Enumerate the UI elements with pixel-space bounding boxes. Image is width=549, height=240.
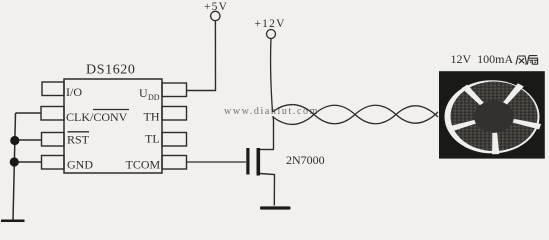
fan rotor blades [448,82,541,155]
svg-text:CLK/CONV: CLK/CONV [66,110,128,124]
svg-text:I/O: I/O [66,85,82,99]
pin box TCOM (right row 4) [162,156,187,170]
wire left bus vertical [13,113,16,220]
pin box UDD (right row 1) [162,83,187,97]
wire CLK/CONV to left bus [16,112,42,114]
transistor Q1 2N7000 [246,148,274,206]
svg-text:2N7000: 2N7000 [286,153,325,167]
power terminal +5V [204,1,228,21]
node junction GND/bus [10,157,19,166]
wire UDD to +5V [187,21,216,91]
source lead [260,174,275,206]
wire TCOM to gate [187,161,247,163]
IC U1 DS1620 body [64,79,162,173]
ground (source) [262,206,290,209]
svg-text:TCOM: TCOM [126,158,161,172]
pin box CLK/CONV (left row 2) [41,107,64,121]
twisted pair wire A [273,105,439,124]
pin box GND (left row 4) [42,156,65,170]
fan rotor frame [445,80,540,153]
svg-text:TH: TH [144,110,160,124]
svg-text:DD: DD [148,93,160,102]
fan label CJK feng shan [516,56,538,65]
pin box TH (right row 2) [162,107,187,121]
pin box TL (right row 3) [162,133,187,147]
gate bar [246,148,249,175]
svg-text:GND: GND [67,158,93,172]
channel bar [257,148,261,176]
node junction RST/bus [10,136,19,145]
pin box I/O (left row 1) [42,82,64,96]
twisted pair wire B [273,105,438,124]
wire RST to bus [15,139,42,141]
fan M1 12V 100mA housing [439,71,545,158]
svg-text:12V 100mA: 12V 100mA [451,52,514,66]
pin box RST (left row 3) [42,133,65,147]
power terminal +12V [255,18,286,39]
svg-text:U: U [139,86,148,100]
ground (left bus) [1,220,25,223]
svg-text:RST: RST [67,133,90,147]
svg-text:+12V: +12V [255,18,286,30]
drain lead [260,149,274,151]
pin label RST with overline [67,132,90,147]
wire GND to bus [14,161,41,163]
pin label UDD [139,86,160,102]
svg-text:DS1620: DS1620 [86,63,136,78]
wire +12V down to twisted pair [271,39,273,112]
pin label CLK/CONV with overline [66,110,129,125]
wire drain up to twisted pair [272,116,275,150]
svg-text:TL: TL [145,132,160,146]
